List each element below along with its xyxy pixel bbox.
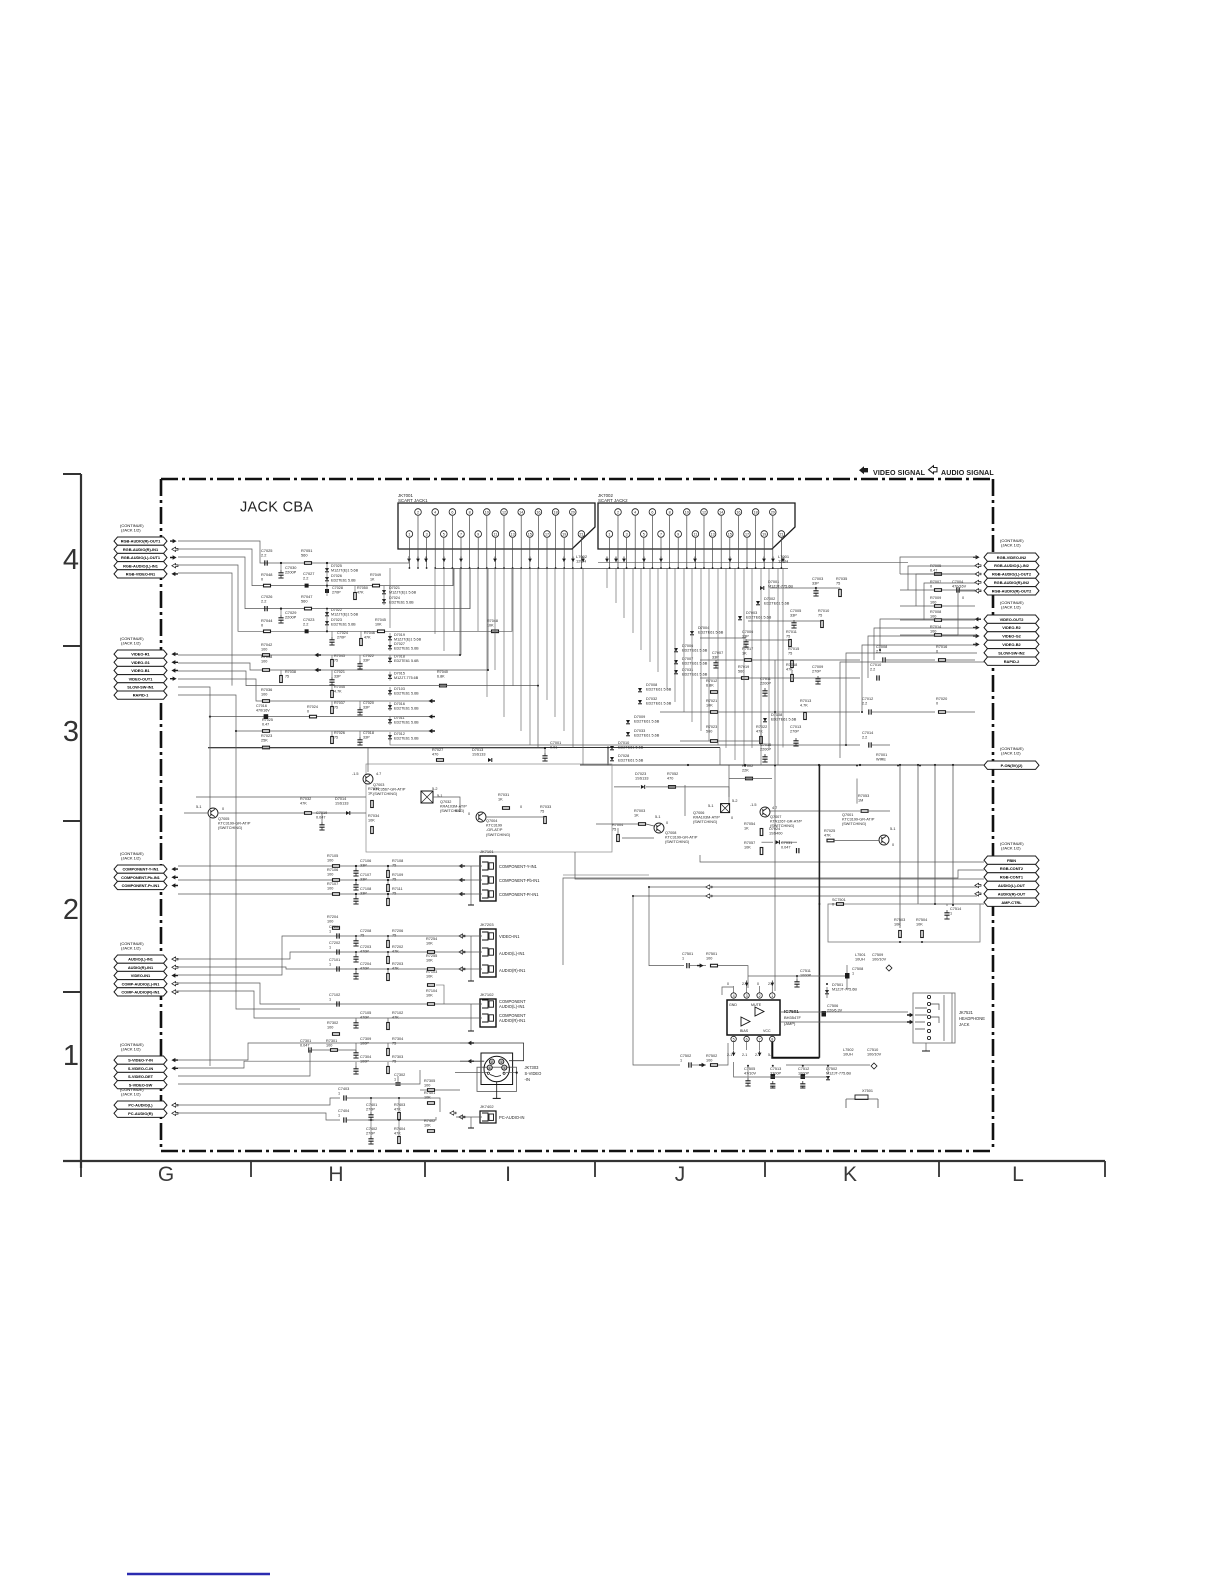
arrow below pin7 — [758, 1053, 762, 1056]
svg-text:R7053: R7053 — [858, 794, 869, 798]
JK7002 pin 19 — [761, 531, 768, 538]
long vertical line6 — [952, 765, 954, 905]
svg-text:2-1: 2-1 — [768, 982, 773, 986]
svg-text:560: 560 — [301, 553, 308, 558]
svg-text:D7031: D7031 — [682, 668, 693, 672]
svg-text:R7502: R7502 — [706, 1054, 717, 1058]
svg-text:R7403: R7403 — [394, 1103, 405, 1107]
signal arrow below scart — [581, 559, 585, 562]
net flag RGB-CONT2 — [984, 864, 1039, 872]
svg-text:270P: 270P — [337, 635, 346, 639]
svg-text:ED2TE61 5.6B: ED2TE61 5.6B — [618, 745, 644, 749]
svg-text:4: 4 — [634, 510, 636, 514]
s-video connector circle — [484, 1056, 509, 1081]
svg-text:S-VIDEO-C-IN: S-VIDEO-C-IN — [128, 1066, 153, 1071]
svg-text:C7203: C7203 — [360, 945, 371, 949]
arrow into pin1 — [770, 983, 774, 986]
svg-text:ED2TE61 5.6B: ED2TE61 5.6B — [646, 687, 672, 691]
wire from scart pin — [694, 538, 696, 568]
wire RGB-CONT2 — [563, 870, 984, 965]
wire VIDEO-G1 — [178, 568, 488, 670]
svg-text:100/10V: 100/10V — [867, 1052, 882, 1056]
JK7001 pin 2 — [415, 509, 422, 516]
svg-text:R7301: R7301 — [326, 1039, 337, 1043]
diode D7108 — [763, 718, 767, 722]
wire RAPID-2 — [840, 662, 984, 758]
svg-text:(JACK 1/2): (JACK 1/2) — [1001, 846, 1021, 851]
svg-text:C7105: C7105 — [360, 1011, 371, 1015]
JK7001 pin 20 — [570, 509, 577, 516]
svg-text:1: 1 — [771, 994, 773, 998]
wire scart1 drop — [477, 568, 479, 631]
arrow RGB-AUDIO(R)-IN1 — [172, 547, 178, 551]
svg-text:C7302: C7302 — [394, 1073, 405, 1077]
svg-text:RGB-AUDIO(L)-IN1: RGB-AUDIO(L)-IN1 — [123, 563, 159, 568]
svg-text:I: I — [505, 1163, 511, 1186]
diode D7002 — [756, 601, 760, 605]
svg-text:Q7006: Q7006 — [693, 811, 704, 815]
svg-text:3: 3 — [626, 532, 628, 536]
arrow VIDEO-R1 mid — [314, 653, 321, 657]
svg-text:C7512: C7512 — [798, 1067, 809, 1071]
svg-text:C7502: C7502 — [680, 1054, 691, 1058]
svg-text:R7020: R7020 — [936, 697, 947, 701]
JK7002 pin 4 — [632, 509, 639, 516]
JK7002 pin 17 — [744, 531, 751, 538]
wire VIDEO-R2 — [874, 628, 977, 660]
arrow PC-AUDIO(R) — [172, 1111, 178, 1115]
svg-text:COMPONENT-Pr-IN1: COMPONENT-Pr-IN1 — [499, 892, 539, 897]
wire RGB-AUDIO(R)-OUT2 — [942, 591, 977, 635]
wire from scart pin — [634, 516, 636, 568]
JK7001 pin 18 — [552, 509, 559, 516]
svg-text:S-VIDEO-Y-IN: S-VIDEO-Y-IN — [128, 1058, 153, 1063]
svg-text:C7202: C7202 — [329, 941, 340, 945]
svg-text:C7010: C7010 — [870, 663, 881, 667]
svg-text:2200P: 2200P — [285, 615, 297, 620]
svg-text:RGB-AUDIO(L)-OUT1: RGB-AUDIO(L)-OUT1 — [121, 555, 161, 560]
net flag RAPID-2 — [984, 657, 1039, 665]
svg-text:5-1: 5-1 — [437, 794, 443, 798]
svg-text:470: 470 — [432, 752, 438, 756]
net flag RGB-AUDIO(L)-IN1 — [114, 562, 167, 570]
wire scart2 drop — [632, 568, 634, 633]
JK7001 pin 14 — [518, 509, 525, 516]
bus junction — [899, 764, 901, 766]
bottom blue mark — [127, 1573, 270, 1575]
svg-text:R7031: R7031 — [498, 793, 509, 797]
svg-text:VIDEO-OUT1: VIDEO-OUT1 — [129, 676, 154, 681]
svg-text:1K: 1K — [634, 813, 639, 817]
svg-text:Q7007: Q7007 — [770, 815, 781, 819]
wire scart1 drop — [529, 568, 531, 745]
wire RGB-VIDEO row — [178, 573, 232, 686]
svg-text:K: K — [843, 1163, 857, 1186]
svg-text:R7108: R7108 — [392, 859, 403, 863]
transistor Q7003 — [363, 774, 373, 784]
svg-text:1SS400: 1SS400 — [769, 831, 783, 835]
svg-text:2.2: 2.2 — [261, 599, 266, 604]
svg-text:R7001: R7001 — [876, 753, 887, 757]
svg-text:RGB-VIDEO-IN2: RGB-VIDEO-IN2 — [997, 555, 1027, 560]
net flag VIDEO-OUT1 — [114, 675, 167, 683]
signal arrow below scart — [442, 559, 446, 562]
svg-text:D7028: D7028 — [618, 754, 629, 758]
svg-text:19: 19 — [762, 532, 766, 536]
svg-text:1: 1 — [608, 532, 610, 536]
wire AUDIO(R)-IN1 — [178, 967, 456, 969]
svg-text:COMPONENT-Y-IN1: COMPONENT-Y-IN1 — [122, 867, 159, 872]
svg-text:5-1: 5-1 — [890, 827, 896, 831]
svg-text:560: 560 — [301, 599, 308, 604]
svg-text:AUDIO(R)-IN1: AUDIO(R)-IN1 — [499, 1018, 526, 1023]
svg-text:VIDEO-IN1: VIDEO-IN1 — [131, 973, 151, 978]
net flag SLOW-SW-IN1 — [114, 683, 167, 691]
wire from scart pin — [669, 516, 671, 568]
wire scart2 drop — [708, 568, 710, 741]
svg-text:(JACK 1/2): (JACK 1/2) — [1001, 605, 1021, 610]
diode D7026 — [325, 577, 329, 581]
net flag VIDEO-B1 — [114, 666, 167, 674]
svg-text:1: 1 — [682, 956, 684, 960]
svg-text:J: J — [675, 1163, 686, 1186]
ruler tick row3/2 — [63, 820, 81, 822]
svg-text:12: 12 — [702, 510, 706, 514]
svg-text:R7030: R7030 — [368, 787, 379, 791]
svg-text:1K: 1K — [498, 797, 503, 801]
wire heavy-row to bus — [607, 748, 609, 766]
wire from scart pin — [443, 538, 445, 568]
svg-text:ED2TE61 5.6B: ED2TE61 5.6B — [394, 659, 419, 663]
svg-text:12: 12 — [502, 510, 506, 514]
svg-text:100: 100 — [326, 1043, 332, 1047]
IC7501 pin 2 — [757, 993, 762, 998]
svg-text:100: 100 — [327, 886, 333, 890]
wire from scart pin — [477, 538, 479, 568]
svg-text:C7513: C7513 — [770, 1067, 781, 1071]
jk7402 ground stub — [470, 1117, 472, 1128]
svg-text:R7054: R7054 — [744, 822, 755, 826]
svg-text:FBIN: FBIN — [1007, 858, 1016, 863]
JK7002 pin 15 — [727, 531, 734, 538]
svg-text:5: 5 — [643, 532, 645, 536]
net flag AUDIO(L)-IN1 — [114, 955, 167, 963]
svg-text:2-1: 2-1 — [755, 1053, 760, 1057]
wire scart1 drop — [512, 568, 514, 686]
svg-text:PC-AUDIO-IN: PC-AUDIO-IN — [499, 1115, 525, 1120]
bus junction — [859, 764, 861, 766]
svg-text:33P: 33P — [363, 658, 370, 662]
svg-text:1M: 1M — [858, 798, 863, 802]
svg-text:R7023: R7023 — [706, 725, 717, 729]
svg-text:(JACK 1/2): (JACK 1/2) — [121, 528, 141, 533]
diode D7010 — [610, 746, 614, 750]
diode D7032 — [638, 700, 642, 704]
IC7501 pin 4 — [731, 993, 736, 998]
svg-text:R7503: R7503 — [894, 918, 905, 922]
svg-text:(JACK 1/2): (JACK 1/2) — [1001, 543, 1021, 548]
svg-text:AUDIO(R)-IN1: AUDIO(R)-IN1 — [499, 968, 526, 973]
svg-text:(SWITCHING): (SWITCHING) — [373, 792, 398, 796]
svg-text:5-2: 5-2 — [432, 787, 438, 791]
switch box outline — [366, 764, 612, 852]
svg-text:PC-AUDIO(L): PC-AUDIO(L) — [128, 1103, 153, 1108]
signal arrow below scart — [762, 559, 766, 562]
wire from scart pin — [580, 538, 582, 568]
svg-text:IC7501: IC7501 — [784, 1009, 799, 1014]
svg-text:21: 21 — [579, 532, 583, 536]
wire RGB row3 — [178, 557, 470, 609]
svg-text:(SWITCHING): (SWITCHING) — [440, 809, 465, 813]
svg-text:R7106: R7106 — [327, 868, 338, 872]
wire Q7008 stem — [596, 823, 638, 825]
wire row 745 long — [470, 744, 860, 746]
wire from scart pin — [572, 516, 574, 568]
svg-text:VIDEO-R1: VIDEO-R1 — [131, 652, 150, 657]
svg-text:R7012: R7012 — [706, 679, 717, 683]
svg-text:AUDIO(L)-OUT: AUDIO(L)-OUT — [998, 883, 1026, 888]
svg-text:0.47: 0.47 — [262, 722, 269, 726]
JK7001 pin 15 — [527, 531, 534, 538]
wire from scart pin — [520, 516, 522, 568]
left ruler line — [80, 474, 82, 1168]
svg-text:AMP-CTRL: AMP-CTRL — [1001, 900, 1022, 905]
wire left col feed — [389, 568, 391, 628]
JK7002 pin 5 — [641, 531, 648, 538]
arrow AUDIO(L)-OUT mid — [706, 885, 712, 889]
net flag AUDIO(R)-IN1 — [114, 963, 167, 971]
wire from scart pin — [503, 516, 505, 568]
JK7002 pin 16 — [735, 509, 742, 516]
diode D7016 — [388, 705, 392, 709]
arrow RGB-AUDIO(L)-OUT2 — [975, 572, 981, 576]
svg-text:2-1: 2-1 — [727, 1053, 732, 1057]
JK7002 pin 1 — [606, 531, 613, 538]
arrow RGB-AUDIO(R)-IN2 — [975, 580, 981, 584]
svg-text:M1ZJT-775.6B: M1ZJT-775.6B — [832, 987, 857, 991]
svg-text:BIAS: BIAS — [740, 1029, 749, 1033]
svg-text:C7304: C7304 — [360, 1055, 371, 1059]
wire Q7005 row — [184, 812, 208, 814]
arrow AUDIO(L)-IN1 — [172, 957, 178, 961]
svg-text:C7404: C7404 — [338, 1109, 349, 1113]
svg-text:0: 0 — [666, 821, 668, 825]
diode D7033 — [626, 732, 630, 736]
svg-text:270P: 270P — [366, 1107, 375, 1111]
svg-text:75: 75 — [334, 705, 338, 709]
svg-text:RAPID-1: RAPID-1 — [133, 693, 149, 698]
svg-text:75: 75 — [392, 1059, 396, 1063]
svg-text:C7508: C7508 — [852, 967, 863, 971]
wire from scart pin — [729, 538, 731, 568]
JK7002 pin 14 — [718, 509, 725, 516]
bottom ruler tick — [764, 1161, 766, 1177]
JK7002 pin 9 — [675, 531, 682, 538]
JK7002 pin 18 — [752, 509, 759, 516]
wire scart1 drop — [434, 568, 436, 634]
wire COMPONENT-Pb-IN1 — [178, 879, 456, 881]
svg-text:D7007: D7007 — [682, 657, 693, 661]
svg-text:10: 10 — [685, 510, 689, 514]
svg-text:SCART JACK1: SCART JACK1 — [398, 498, 428, 503]
svg-text:ED2TE61 5.6B: ED2TE61 5.6B — [682, 648, 708, 652]
net flag RGB-AUDIO(R)-IN2 — [984, 578, 1039, 586]
wire VIDEO-R1 — [178, 568, 460, 655]
signal arrow below scart — [407, 559, 411, 562]
wire from scart pin — [651, 516, 653, 568]
svg-text:18: 18 — [754, 510, 758, 514]
svg-text:R7027: R7027 — [432, 748, 443, 752]
signal arrow below scart — [562, 559, 566, 562]
JK7001 pin 12 — [501, 509, 508, 516]
wire from scart pin — [755, 516, 757, 568]
svg-text:0: 0 — [936, 701, 938, 705]
svg-text:R7032: R7032 — [300, 797, 311, 801]
wire from scart pin — [469, 516, 471, 568]
svg-text:KRA103M-AT/P: KRA103M-AT/P — [440, 804, 467, 808]
JK7001 pin 8 — [466, 509, 473, 516]
transistor Q7001 — [879, 835, 889, 845]
wire VIDEO-B1 — [178, 671, 538, 748]
schematic border (dash-dot) — [161, 479, 993, 1151]
svg-text:R7042: R7042 — [261, 643, 272, 647]
arrow COMPONENT-Y-IN1 — [171, 867, 178, 871]
wire S-VIDEO-C-IN — [178, 1061, 460, 1068]
svg-text:11: 11 — [693, 532, 697, 536]
svg-text:C7201: C7201 — [329, 925, 340, 929]
diode D7027 — [388, 645, 392, 649]
wire top right horizontal — [598, 562, 908, 564]
legend audio-signal arrow — [929, 466, 938, 474]
svg-text:75: 75 — [612, 827, 616, 831]
svg-text:R7002: R7002 — [742, 764, 753, 768]
svg-text:SC7501: SC7501 — [832, 898, 846, 902]
svg-text:100: 100 — [327, 872, 333, 876]
svg-text:C7509: C7509 — [872, 953, 883, 957]
wire scart2 drop — [606, 568, 608, 588]
svg-text:10K: 10K — [375, 622, 382, 626]
svg-text:10K: 10K — [424, 1095, 431, 1099]
net flag S-VIDEO-Y-IN — [114, 1056, 167, 1064]
wire scart1 drop — [554, 568, 556, 717]
svg-text:1SS133: 1SS133 — [335, 801, 349, 805]
svg-text:1: 1 — [329, 945, 331, 949]
net flag VIDEO-R1 — [114, 650, 167, 658]
wire from scart pin — [529, 538, 531, 568]
svg-text:ED2TE61 5.6B: ED2TE61 5.6B — [682, 672, 708, 676]
IC7501 pin4 stub — [722, 987, 733, 995]
wire box link — [563, 874, 649, 876]
svg-text:100: 100 — [706, 956, 712, 960]
svg-text:MUTE: MUTE — [751, 1003, 762, 1007]
svg-text:75: 75 — [285, 674, 289, 678]
svg-text:470P: 470P — [360, 1015, 369, 1019]
wire into s-video pin4 — [460, 1060, 484, 1062]
diode D7015 — [388, 675, 392, 679]
arrow RGB-AUDIO(R)-OUT2 — [975, 589, 981, 593]
wire from scart pin — [460, 538, 462, 568]
svg-text:20: 20 — [771, 510, 775, 514]
svg-text:ED2TE61 5.6B: ED2TE61 5.6B — [634, 719, 660, 723]
svg-text:22K: 22K — [742, 768, 749, 772]
svg-text:ED2TE61 5.6B: ED2TE61 5.6B — [394, 646, 419, 650]
svg-text:R7501: R7501 — [706, 952, 717, 956]
s-video detect contacts — [487, 1072, 489, 1074]
svg-text:560: 560 — [738, 669, 744, 673]
bus junction — [934, 764, 936, 766]
diode D7023 — [325, 621, 329, 625]
svg-text:4: 4 — [63, 544, 79, 576]
arrow COMPONENT-Pr-IN1 — [171, 883, 178, 887]
svg-text:JACK: JACK — [959, 1022, 970, 1027]
svg-text:C7402: C7402 — [366, 1127, 377, 1131]
wire VIDEO-G2 — [868, 636, 977, 678]
svg-text:RGB-AUDIO(R)-IN1: RGB-AUDIO(R)-IN1 — [123, 547, 159, 552]
s-video top wire loop — [460, 1043, 524, 1061]
legend video-signal arrow — [859, 466, 868, 474]
wire scart2 drop — [674, 568, 676, 702]
svg-text:0.047: 0.047 — [781, 845, 791, 849]
net flag COMPONENT-Pr-IN1 — [114, 881, 167, 889]
arrow RGB-AUDIO(L)-IN2 — [975, 563, 981, 567]
connector JK7001 SCART JACK1 — [398, 493, 595, 549]
net flag AMP-CTRL — [984, 898, 1039, 906]
net flag VIDEO-R2 — [984, 623, 1039, 631]
jk7102 ground stub — [470, 1004, 472, 1031]
wire RGB-AUDIO(L)-IN2 — [908, 566, 977, 590]
signal arrow below scart — [416, 559, 420, 562]
JK7001 pin 11 — [492, 531, 499, 538]
wire scart1 drop — [503, 568, 505, 717]
svg-text:1: 1 — [394, 1077, 396, 1081]
heavy net row — [208, 747, 720, 749]
svg-text:13: 13 — [711, 532, 715, 536]
net flag COMPONENT-Y-IN1 — [114, 865, 167, 873]
arrow AUDIO(R)-OUT mid — [706, 894, 712, 898]
svg-text:JK7101: JK7101 — [480, 849, 494, 854]
svg-text:2.2: 2.2 — [862, 735, 867, 739]
svg-text:4: 4 — [733, 994, 735, 998]
svg-text:10K: 10K — [426, 941, 433, 945]
svg-text:C7006: C7006 — [742, 630, 753, 634]
svg-text:33P: 33P — [790, 613, 797, 617]
svg-text:C7403: C7403 — [338, 1087, 349, 1091]
JK7002 pin 7 — [658, 531, 665, 538]
wire scart2 drop — [623, 568, 625, 618]
wire scart1 drop — [443, 568, 445, 651]
svg-text:15: 15 — [728, 532, 732, 536]
svg-text:R7010: R7010 — [818, 609, 829, 613]
svg-text:COMPONENT-Y-IN1: COMPONENT-Y-IN1 — [499, 864, 538, 869]
wire scart1 drop — [572, 568, 574, 748]
wire scart2 drop long — [777, 568, 779, 766]
svg-text:100: 100 — [261, 692, 267, 696]
mute loop rectangle — [828, 904, 980, 942]
svg-text:R7254: R7254 — [426, 937, 437, 941]
wire bus to Q7006 — [728, 766, 730, 798]
svg-text:D7009: D7009 — [634, 715, 645, 719]
svg-text:14: 14 — [719, 510, 723, 514]
svg-text:VIDEO-G1: VIDEO-G1 — [131, 660, 150, 665]
IC7501 amp triangle 1 — [755, 1007, 764, 1016]
svg-text:1SS133: 1SS133 — [635, 776, 649, 780]
svg-text:1: 1 — [852, 971, 854, 975]
svg-text:2: 2 — [759, 994, 761, 998]
JK7001 pin 3 — [423, 531, 430, 538]
JK7002 pin 13 — [709, 531, 716, 538]
svg-text:100: 100 — [930, 629, 936, 633]
net flag COMP-AUDIO(R)-IN1 — [114, 988, 167, 996]
